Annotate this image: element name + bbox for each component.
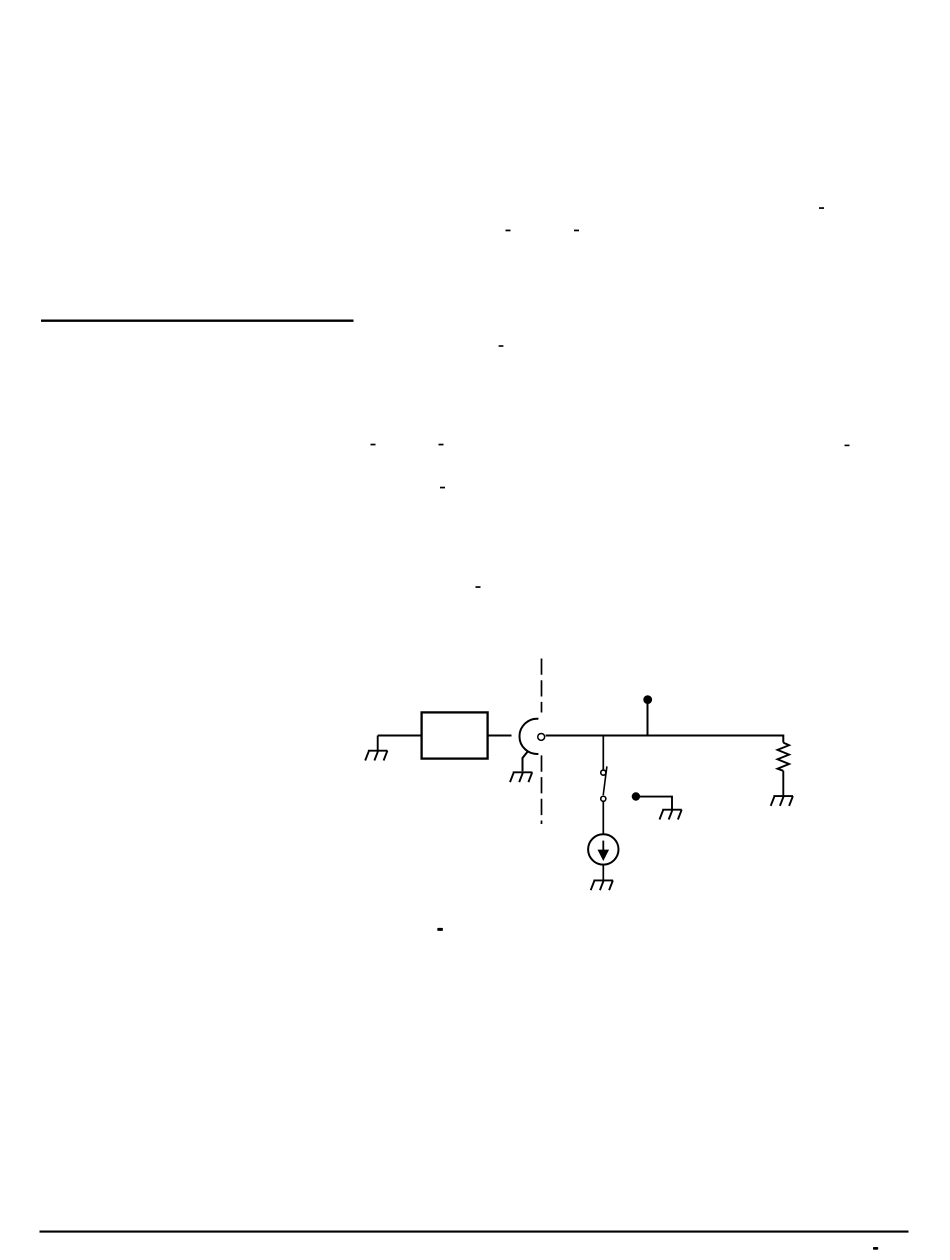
wire W5 (switch to current source) (602, 802, 604, 835)
block U1 (422, 712, 488, 758)
ground G2 (below current source) (591, 880, 613, 890)
wire W9 (resistor to ground) (782, 771, 784, 796)
ground G4 (below resistor) (771, 796, 793, 806)
wire W3 (main bus) (546, 735, 784, 737)
text hyphen f (439, 444, 444, 446)
connector J1 shield tail (523, 751, 529, 772)
node dot D1 with stub (643, 695, 652, 735)
wire W2 (block to connector) (488, 735, 512, 737)
ground G1 (left of block) (365, 736, 387, 761)
text hyphen d (499, 345, 504, 347)
resistor R1 (778, 743, 790, 771)
ground G3 (right of switch) (660, 810, 682, 820)
ground J1 (connector shield) (510, 772, 532, 782)
dashed boundary line (upper segment) (541, 659, 543, 713)
wire W6 (current source to ground) (602, 865, 604, 881)
text hyphen i (476, 586, 481, 588)
wire W1 (ground to block) (378, 735, 422, 737)
text hyphen e (371, 444, 376, 446)
wire W8 (bus corner down to resistor) (782, 735, 784, 743)
text hyphen g (845, 445, 850, 447)
footer rule (40, 1231, 909, 1233)
switch S1 (601, 766, 607, 801)
text hyphen c (574, 230, 579, 232)
current source I1 (588, 834, 618, 864)
wire W4 (switch branch) (602, 736, 604, 771)
text hyphen k (bold) (873, 1247, 878, 1250)
text hyphen h (440, 487, 445, 489)
dashed boundary line (lower segment) (541, 755, 543, 824)
wire W7 (dot to ground corner) (636, 797, 672, 810)
connector J1 shield arc (519, 719, 538, 754)
node dot D2 (632, 792, 640, 800)
text hyphen b (506, 230, 511, 232)
text hyphen a (819, 207, 824, 209)
heading underline rule (41, 320, 354, 322)
text hyphen j (bold) (437, 928, 443, 931)
connector J1 center pin (538, 733, 545, 740)
